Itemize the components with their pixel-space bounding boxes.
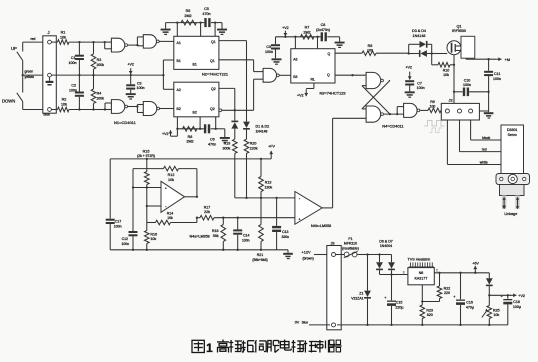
- svg-text:C9: C9: [266, 45, 271, 49]
- svg-text:C6: C6: [210, 138, 215, 142]
- svg-text:10k: 10k: [443, 73, 449, 77]
- svg-text:B1: B1: [193, 63, 197, 67]
- connector J2: [441, 98, 479, 120]
- wire /Q1 out: [219, 60, 263, 72]
- svg-text:2M2: 2M2: [303, 30, 310, 34]
- wire upper timing rail: [166, 22, 222, 24]
- svg-text:C2: C2: [71, 84, 76, 88]
- svg-text:R5: R5: [186, 9, 191, 13]
- connector J3: [327, 241, 341, 329]
- wire Q2 out: [219, 88, 235, 110]
- gate N1c: [98, 100, 128, 114]
- svg-text:R1: R1: [61, 31, 66, 35]
- servo lower body: [500, 185, 525, 196]
- ground right end N3 rail: [335, 37, 345, 48]
- resistor R16 10k: [145, 223, 157, 250]
- resistor R2 10k: [51, 98, 104, 112]
- wire /RL to +V2: [297, 83, 314, 98]
- svg-text:black: black: [482, 136, 490, 140]
- heatsink TVS: [408, 258, 435, 268]
- label N3=74HCT123: [320, 90, 346, 95]
- capacitor C13 330n: [272, 197, 289, 250]
- svg-text:MFR110: MFR110: [344, 242, 357, 246]
- wire Q1 out: [219, 40, 247, 42]
- opamp N4b: [295, 192, 322, 225]
- svg-text:+V2: +V2: [518, 294, 525, 298]
- svg-text:100n: 100n: [69, 89, 77, 93]
- svg-text:N6: N6: [419, 271, 424, 275]
- svg-text:100n: 100n: [242, 238, 250, 242]
- svg-text:Linkage: Linkage: [504, 212, 517, 216]
- svg-text:R2: R2: [62, 98, 67, 102]
- node green-yellow junction: [22, 74, 24, 76]
- svg-text:R19: R19: [224, 142, 231, 146]
- svg-text:100k: 100k: [96, 97, 104, 101]
- svg-text:1N4004: 1N4004: [380, 244, 392, 248]
- svg-text:C17: C17: [115, 220, 122, 224]
- svg-text:100: 100: [367, 48, 373, 52]
- diodes D3 D4 1N4148: [408, 29, 433, 57]
- svg-text:N3=74HCT123: N3=74HCT123: [320, 90, 346, 95]
- svg-text:V22ZA1: V22ZA1: [351, 296, 363, 300]
- resistor R7 2M2: [294, 26, 314, 39]
- svg-text:C5: C5: [204, 7, 209, 11]
- svg-text:10k: 10k: [150, 237, 156, 241]
- svg-text:(resettable): (resettable): [342, 246, 359, 250]
- wire +12V in: [314, 254, 330, 256]
- capacitor C16 470u: [453, 273, 474, 325]
- gate N4a latch top: [366, 72, 383, 88]
- feedback bottom R14 10k: [147, 211, 197, 225]
- switch S1 UP: [11, 42, 23, 75]
- pot R25 10k: [482, 295, 500, 325]
- svg-text:100µ: 100µ: [513, 305, 521, 309]
- svg-text:R12: R12: [168, 173, 175, 177]
- ground below C3: [126, 93, 136, 99]
- regulator N6 KA317T: [408, 268, 434, 285]
- svg-text:2M2: 2M2: [184, 14, 191, 18]
- svg-text:RL: RL: [311, 78, 316, 82]
- resistor R21 56k+6k8: [252, 198, 267, 262]
- ground below C9: [272, 58, 282, 64]
- svg-text:R3: R3: [97, 58, 102, 62]
- svg-text:R14: R14: [167, 211, 174, 215]
- label N1=CD4011: [114, 120, 137, 125]
- varistor Z1 symbol: [351, 291, 371, 325]
- wire N4a minus input: [147, 205, 161, 207]
- wire to B3: [279, 74, 291, 76]
- svg-text:Q1: Q1: [210, 59, 215, 63]
- svg-text:C7: C7: [417, 81, 422, 85]
- wire N1b-A1: [159, 40, 174, 42]
- diode D6 1N4004: [376, 255, 383, 275]
- svg-text:1: 1: [206, 341, 213, 355]
- resistor R4 100k: [91, 75, 104, 111]
- IC N3 74HCT123: [291, 49, 335, 83]
- svg-text:+V2: +V2: [297, 94, 304, 98]
- gate N4b latch bottom: [366, 106, 383, 122]
- svg-text:220: 220: [444, 291, 450, 295]
- resistor R9 100: [420, 100, 446, 113]
- capacitor C2 100n: [69, 75, 84, 111]
- resistor R8 2M2: [176, 127, 197, 144]
- servo D3301 body: [501, 125, 524, 174]
- IC N2a monostable: [174, 36, 219, 69]
- svg-text:470µ: 470µ: [466, 305, 474, 309]
- supply +V2 at N4: [405, 66, 412, 80]
- svg-text:C13: C13: [282, 230, 288, 234]
- wire Q1 drain down: [453, 55, 455, 104]
- diode D2 symbol: [243, 122, 269, 140]
- wire lower timing pins: [177, 117, 215, 129]
- wire N4b out up: [322, 118, 366, 208]
- wire timing pins upper: [177, 23, 215, 37]
- transistor Q1 IRF9530: [447, 25, 475, 59]
- wire servo white: [447, 120, 501, 165]
- supply +V2 arrow at mid rail: [127, 63, 134, 77]
- wire bottom blue rail: [23, 110, 50, 117]
- wire latch out to gate: [383, 107, 403, 116]
- label 0V blue: [295, 320, 308, 324]
- svg-text:white: white: [480, 161, 488, 165]
- svg-text:100n: 100n: [114, 224, 122, 228]
- capacitor C10 100n: [453, 78, 490, 96]
- svg-text:330n: 330n: [282, 235, 290, 239]
- svg-text:Q2: Q2: [211, 87, 216, 91]
- resistor R1 10k: [51, 31, 104, 45]
- ground left of R5: [161, 23, 171, 35]
- ground rail opamp: [110, 249, 293, 260]
- opamp N4a: [161, 181, 185, 212]
- svg-text:Q2: Q2: [210, 107, 215, 111]
- svg-text:B2: B2: [193, 110, 197, 114]
- svg-text:22k: 22k: [204, 210, 210, 214]
- svg-text:10k: 10k: [167, 216, 173, 220]
- svg-text:D3 & D4: D3 & D4: [412, 29, 426, 33]
- svg-text:A3: A3: [293, 57, 297, 61]
- capacitor C14 100n: [233, 217, 249, 250]
- ground right of C5: [217, 23, 227, 35]
- svg-text:KA317T: KA317T: [415, 277, 429, 281]
- capacitor C7 100n: [405, 80, 424, 91]
- resistor R22 220: [422, 273, 450, 302]
- svg-text:N4=CD4011: N4=CD4011: [382, 123, 403, 128]
- label Linkage: [504, 212, 517, 216]
- wire B1 from mid-rail: [162, 60, 174, 89]
- switch S2 DOWN: [2, 75, 23, 109]
- svg-text:100n: 100n: [69, 61, 77, 65]
- IC N2b monostable: [174, 82, 219, 117]
- svg-text:100n: 100n: [493, 77, 501, 81]
- ground in J1: [46, 77, 54, 86]
- svg-text:A2: A2: [177, 88, 181, 92]
- wire N4a plus input: [132, 186, 161, 188]
- linkage arrows: [502, 197, 519, 209]
- wire gate N2 lower input: [254, 79, 264, 110]
- svg-text:Q1: Q1: [211, 40, 216, 44]
- svg-text:56k: 56k: [213, 234, 219, 238]
- svg-text:D3301: D3301: [507, 128, 517, 132]
- svg-text:100n: 100n: [463, 83, 471, 87]
- svg-text:+FV: +FV: [268, 144, 275, 148]
- svg-text:red: red: [482, 148, 487, 152]
- capacitor C11 100n: [484, 59, 501, 112]
- svg-text:R17: R17: [204, 206, 211, 210]
- svg-text:R8: R8: [188, 135, 193, 139]
- svg-text:220µ: 220µ: [395, 305, 403, 309]
- svg-text:+6V: +6V: [472, 262, 479, 266]
- resistor R19 300k: [223, 139, 238, 198]
- diode D8: [488, 273, 490, 278]
- varistor Z1 V22ZA1: [366, 253, 368, 290]
- wire A2 from mid-rail: [163, 88, 173, 90]
- svg-text:470n: 470n: [202, 12, 210, 16]
- wire mid rail to +V2 node: [51, 74, 163, 76]
- gate N1b: [143, 35, 159, 48]
- svg-text:N4b=LM358: N4b=LM358: [311, 224, 331, 228]
- svg-text:10k: 10k: [168, 178, 174, 182]
- label +12V brown: [302, 251, 314, 261]
- svg-text:R16: R16: [150, 232, 157, 236]
- svg-text:3: 3: [403, 270, 405, 274]
- diode D2 1N4148: [246, 41, 248, 122]
- svg-text:R23: R23: [426, 308, 433, 312]
- wire N4b plus input: [235, 197, 295, 199]
- ground at J2: [479, 111, 493, 119]
- resistor R20 220k: [244, 139, 258, 199]
- connector J1: [43, 30, 57, 113]
- gate N1d: [143, 102, 159, 116]
- wire N1a-N1b: [128, 37, 144, 46]
- capacitor C9 100n: [265, 37, 280, 59]
- svg-text:C16: C16: [466, 301, 473, 305]
- resistor R17 22k: [197, 206, 295, 220]
- ground right of C6: [220, 129, 230, 144]
- svg-text:blue: blue: [302, 320, 308, 324]
- svg-text:A1: A1: [177, 41, 181, 45]
- svg-text:+12V: +12V: [302, 251, 311, 255]
- gate N2c combiner: [263, 68, 279, 82]
- wire Q3 out: [335, 52, 362, 54]
- wire servo black: [471, 120, 501, 140]
- capacitor C1 100n: [69, 41, 84, 76]
- svg-text:UP: UP: [11, 46, 17, 51]
- svg-text:+V2: +V2: [127, 63, 134, 67]
- svg-text:D1 & D2: D1 & D2: [256, 125, 270, 129]
- servo mounting bracket: [496, 174, 530, 185]
- label N4a LM358: [190, 235, 210, 239]
- wire regulator output: [434, 268, 489, 274]
- wire /Q3 out: [335, 74, 366, 76]
- svg-text:C11: C11: [494, 72, 500, 76]
- svg-text:B2: B2: [177, 107, 181, 111]
- ground below C7: [405, 91, 415, 97]
- label N4b LM358: [311, 224, 331, 228]
- svg-text:300k: 300k: [223, 146, 231, 150]
- svg-text:J3: J3: [331, 241, 335, 245]
- supply +V2 at lower mono: [162, 129, 177, 136]
- wire 0V rail: [309, 324, 508, 326]
- svg-text:B3: B3: [293, 75, 297, 79]
- resistor R5 2M2: [176, 9, 196, 25]
- svg-text:+V2: +V2: [405, 66, 412, 70]
- wire N4a output: [185, 196, 199, 219]
- svg-text:+M: +M: [505, 58, 510, 62]
- svg-text:+V2: +V2: [282, 26, 289, 30]
- capacitor C8 2x470n: [316, 23, 330, 41]
- capacitor C12 100n: [132, 188, 134, 232]
- wire lower timing rail: [177, 128, 224, 130]
- wire gate to Q1: [432, 53, 448, 55]
- supply +6V arrow: [472, 262, 479, 273]
- diode D1 symbol: [231, 121, 238, 140]
- svg-text:100k: 100k: [96, 63, 104, 67]
- svg-text:C8: C8: [321, 23, 326, 27]
- svg-text:130k: 130k: [264, 185, 272, 189]
- wire N3 timing rail: [276, 36, 340, 38]
- svg-text:DOWN: DOWN: [2, 98, 15, 103]
- wire top-left red rail: [23, 37, 48, 42]
- svg-text:green: green: [25, 70, 34, 74]
- resistor R3 100k: [91, 41, 104, 76]
- capacitor C17 100n: [106, 159, 122, 250]
- capacitor C15 220u: [384, 275, 403, 325]
- svg-text:100: 100: [430, 104, 436, 108]
- label N4=CD4011: [382, 123, 403, 128]
- rail +FV: [110, 144, 275, 160]
- fuse F1 resettable: [336, 237, 368, 258]
- svg-text:10k: 10k: [493, 313, 499, 317]
- svg-text:C18: C18: [513, 300, 520, 304]
- resistor R10 10k: [432, 54, 455, 77]
- svg-text:N2=74HCT221: N2=74HCT221: [202, 72, 228, 77]
- svg-text:100n: 100n: [265, 50, 273, 54]
- svg-text:R21: R21: [257, 253, 264, 257]
- svg-text:+V2: +V2: [162, 132, 169, 136]
- wire N1d-B2: [160, 108, 174, 110]
- svg-text:R7: R7: [305, 26, 310, 30]
- svg-text:TVS Heatsink: TVS Heatsink: [408, 258, 431, 262]
- svg-text:100n: 100n: [121, 242, 129, 246]
- svg-text:470n: 470n: [208, 142, 216, 146]
- svg-text:R25: R25: [493, 308, 500, 312]
- svg-text:100n: 100n: [417, 86, 425, 90]
- svg-text:C1: C1: [71, 56, 76, 60]
- resistor R23 820: [420, 285, 433, 325]
- svg-text:820: 820: [427, 313, 433, 317]
- diode D1 1N4148: [234, 110, 236, 120]
- wire +V2 out: [489, 293, 525, 298]
- diode D7 1N4004: [379, 239, 395, 274]
- svg-text:R6: R6: [368, 44, 373, 48]
- svg-text:Q: Q: [327, 73, 330, 77]
- svg-text:D6 & D7: D6 & D7: [379, 239, 393, 243]
- servo linkage rods: [502, 196, 520, 210]
- svg-text:R22: R22: [444, 286, 451, 290]
- wire +M rail: [466, 57, 510, 62]
- svg-text:C3: C3: [137, 81, 142, 85]
- wire N1c-N1d: [128, 105, 144, 113]
- capacitor C3 100n: [126, 75, 144, 93]
- resistor R18 56k: [212, 217, 226, 250]
- resistor R13 130k: [259, 159, 273, 199]
- svg-text:Z1: Z1: [359, 292, 363, 296]
- svg-text:2M2: 2M2: [186, 140, 193, 144]
- supply +V2 arrow N3: [282, 26, 289, 38]
- svg-text:C15: C15: [396, 301, 403, 305]
- svg-text:N4a=LM358: N4a=LM358: [190, 235, 210, 239]
- diode D8 symbol: [486, 278, 493, 296]
- svg-text:0V: 0V: [295, 320, 300, 324]
- svg-text:1N4148: 1N4148: [256, 129, 268, 133]
- svg-text:N1=CD4011: N1=CD4011: [114, 120, 137, 125]
- svg-text:F1: F1: [348, 237, 352, 241]
- resistor R6 100: [362, 44, 409, 56]
- svg-text:yellow: yellow: [25, 75, 35, 79]
- capacitor C6 470n: [199, 124, 217, 146]
- feedback loop top R12 10k: [133, 166, 197, 197]
- svg-text:B1: B1: [177, 59, 181, 63]
- svg-text:(brown): (brown): [303, 256, 314, 260]
- capacitor C18 100u: [501, 294, 521, 325]
- capacitor C5 470n: [199, 7, 216, 27]
- gate N1a: [104, 38, 128, 52]
- waveform mark: [424, 121, 445, 133]
- svg-text:R4: R4: [97, 92, 102, 96]
- svg-text:IRF9530: IRF9530: [452, 29, 466, 33]
- svg-text:10k: 10k: [60, 36, 66, 40]
- gate N4c driver: [404, 103, 420, 117]
- svg-text:(2k + 572R): (2k + 572R): [137, 154, 155, 158]
- caption text: [192, 340, 342, 356]
- svg-text:R13: R13: [265, 181, 272, 185]
- svg-text:J: J: [48, 30, 50, 35]
- svg-text:R9: R9: [430, 100, 435, 104]
- svg-text:(56k+6k8): (56k+6k8): [252, 258, 267, 262]
- svg-text:100n: 100n: [137, 86, 145, 90]
- svg-text:C10: C10: [464, 78, 471, 82]
- wire to diodes: [368, 253, 392, 255]
- svg-text:1N4148: 1N4148: [413, 34, 426, 38]
- label N2=74HCT221: [202, 72, 228, 77]
- capacitor C12 plates: [121, 231, 137, 250]
- wire servo red: [460, 120, 502, 152]
- svg-text:Servo: Servo: [508, 133, 517, 137]
- svg-text:10k: 10k: [61, 102, 67, 106]
- svg-text:R15: R15: [143, 149, 150, 153]
- svg-text:R20: R20: [250, 142, 257, 146]
- wire latch cross coupling: [362, 81, 390, 115]
- wire /Q2 out: [219, 109, 254, 112]
- svg-text:C14: C14: [243, 234, 249, 238]
- svg-text:J2: J2: [449, 98, 453, 103]
- wire regulator input: [380, 270, 408, 275]
- svg-text:2: 2: [436, 268, 438, 272]
- svg-text:red: red: [31, 37, 36, 41]
- svg-text:Q: Q: [328, 52, 331, 56]
- wire green-yellow: [23, 70, 48, 79]
- svg-text:(2x470n): (2x470n): [316, 28, 330, 32]
- svg-text:220k: 220k: [250, 146, 258, 150]
- svg-text:C12: C12: [122, 237, 128, 241]
- wire N3 pin drops: [295, 37, 317, 49]
- resistor R15 pot: [137, 149, 155, 222]
- svg-text:R18: R18: [212, 229, 219, 233]
